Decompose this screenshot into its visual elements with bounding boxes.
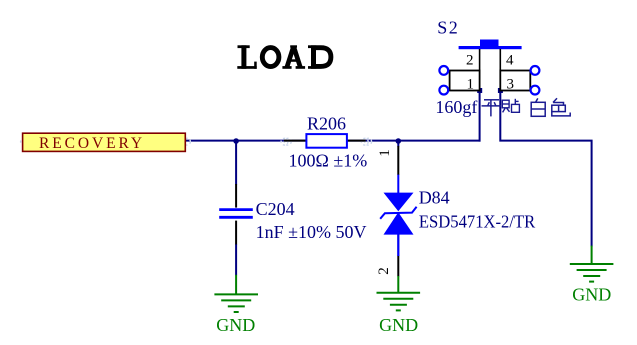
CJK glyph se xyxy=(552,98,570,116)
junction at D84 branch xyxy=(396,138,402,144)
wire switch pin1 vertical xyxy=(479,91,481,142)
svg-text:R206: R206 xyxy=(307,114,346,134)
CJK glyph ping xyxy=(482,100,502,117)
CJK glyph tie xyxy=(502,99,519,113)
net label RECOVERY xyxy=(23,133,186,152)
switch S2 terminal circle bottom-right xyxy=(531,86,540,95)
wire C204 branch upper xyxy=(235,141,237,185)
resistor R206 xyxy=(284,134,366,148)
CJK glyph bai xyxy=(531,98,545,116)
wire C204 branch lower xyxy=(235,244,237,275)
ground symbol under D84 xyxy=(377,276,421,310)
switch S2 body right xyxy=(500,71,530,91)
ground symbol right xyxy=(570,246,614,282)
capacitor C204 xyxy=(219,184,253,244)
junction at switch pin3 xyxy=(498,88,503,93)
svg-text:RECOVERY: RECOVERY xyxy=(39,135,145,152)
switch S2 terminal circle top-left xyxy=(439,66,448,75)
svg-text:100Ω ±1%: 100Ω ±1% xyxy=(289,151,368,171)
svg-text:ESD5471X-2/TR: ESD5471X-2/TR xyxy=(419,212,535,232)
switch S2 pin4 line xyxy=(499,49,501,71)
svg-text:4: 4 xyxy=(506,52,514,68)
switch S2 pin2 line xyxy=(479,49,481,71)
svg-text:D84: D84 xyxy=(419,188,450,208)
pin hotspot marks xyxy=(21,138,372,145)
switch S2 terminal circle bottom-left xyxy=(439,86,448,95)
svg-text:2: 2 xyxy=(376,267,392,275)
svg-text:3: 3 xyxy=(507,77,515,93)
switch S2 actuator bar xyxy=(459,40,522,50)
svg-text:GND: GND xyxy=(216,315,255,335)
title LOAD xyxy=(237,45,331,69)
svg-text:1nF ±10% 50V: 1nF ±10% 50V xyxy=(256,222,367,242)
svg-text:1: 1 xyxy=(377,149,393,157)
diode D84 TVS xyxy=(380,146,416,276)
svg-text:160gf: 160gf xyxy=(435,97,477,117)
svg-text:GND: GND xyxy=(572,285,611,305)
junction at C204 branch xyxy=(233,138,239,144)
svg-text:2: 2 xyxy=(466,52,474,68)
switch S2 terminal circle top-right xyxy=(531,66,540,75)
svg-text:S2: S2 xyxy=(437,18,459,38)
wire D84 branch lower xyxy=(397,235,399,257)
svg-text:GND: GND xyxy=(379,315,418,335)
wire switch pin3 to right gnd xyxy=(500,91,591,247)
ground symbol under C204 xyxy=(214,275,258,312)
wire D84 branch upper xyxy=(397,141,399,147)
junction at switch pin1 xyxy=(477,88,482,93)
svg-text:1: 1 xyxy=(467,77,475,93)
svg-text:C204: C204 xyxy=(256,199,295,219)
switch S2 body left xyxy=(450,71,480,91)
wire main horizontal xyxy=(186,140,481,142)
